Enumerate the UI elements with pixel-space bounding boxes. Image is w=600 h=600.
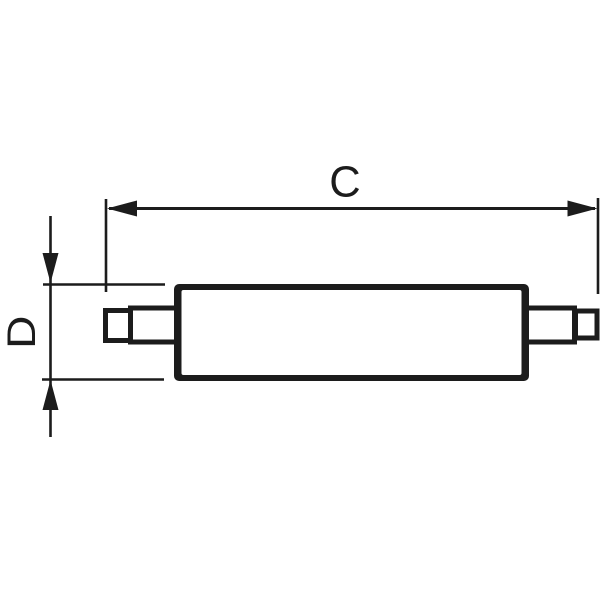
lamp right pin outer segment <box>576 311 598 338</box>
svg-text:C: C <box>329 159 360 207</box>
lamp tube body interior <box>182 290 522 375</box>
lamp left pin inner segment <box>131 308 191 342</box>
dimension D: top arrowhead (pointing down) <box>43 253 59 283</box>
dimension D: bottom extension line <box>42 378 164 381</box>
dimension D: top extension line <box>43 283 165 286</box>
dimension C: left extension line <box>105 199 108 292</box>
dimension C: left arrowhead <box>107 201 137 217</box>
dimension C: right arrowhead <box>568 201 598 217</box>
dimension C: dimension line <box>109 207 595 210</box>
svg-text:D: D <box>0 316 44 349</box>
dimension D: bottom arrowhead (pointing up) <box>43 380 59 410</box>
lamp left pin outer segment <box>106 311 132 341</box>
lamp right pin inner segment <box>515 308 575 342</box>
dimension C: right extension line <box>597 198 600 294</box>
lamp tube body outline <box>174 284 529 381</box>
dimension D: dimension line <box>49 216 52 437</box>
